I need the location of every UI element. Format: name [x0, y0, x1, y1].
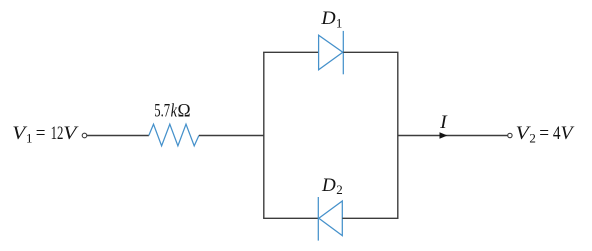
svg-text:D: D: [321, 176, 336, 196]
svg-text:D: D: [320, 9, 336, 29]
svg-text:5.7: 5.7: [154, 102, 170, 122]
label 5.7kOhm: [154, 102, 190, 122]
svg-text:V: V: [561, 124, 576, 144]
wire top branch right: [343, 51, 398, 53]
wire bottom branch left: [263, 217, 319, 219]
wire right rail: [397, 52, 399, 218]
svg-text:Ω: Ω: [178, 102, 191, 122]
wire top branch left: [263, 51, 319, 53]
svg-text:=: =: [36, 124, 46, 144]
svg-text:2: 2: [336, 182, 343, 197]
svg-text:4: 4: [553, 124, 561, 144]
node V2 terminal: [508, 133, 512, 137]
wire bottom branch right: [342, 217, 398, 219]
label D1: [320, 9, 342, 30]
node V1 terminal: [82, 133, 87, 138]
label V2 = 4V: [516, 124, 576, 145]
resistor R1 5.7k: [149, 124, 199, 146]
svg-text:12: 12: [51, 124, 64, 144]
svg-text:2: 2: [529, 131, 536, 146]
current arrow I: [440, 132, 448, 138]
diode D1: [319, 31, 344, 74]
svg-text:V: V: [63, 124, 79, 144]
wire resistor to node A: [199, 135, 265, 137]
svg-text:=: =: [539, 124, 549, 144]
label V1 = 12V: [12, 124, 79, 145]
svg-text:1: 1: [336, 15, 343, 30]
wire V1 to resistor: [87, 135, 149, 137]
svg-text:I: I: [439, 112, 448, 133]
diode D2: [318, 197, 342, 241]
label D2: [321, 176, 343, 197]
svg-text:1: 1: [26, 131, 33, 146]
wire output to V2: [398, 135, 508, 137]
wire left rail: [263, 52, 265, 218]
